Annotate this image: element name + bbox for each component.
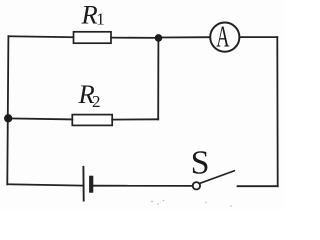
wire: R2 riser corner to R2 box bbox=[112, 118, 158, 120]
switch S lever (open blade) bbox=[200, 171, 235, 184]
ammeter U1 circle bbox=[210, 22, 239, 51]
battery BT1 short thick plate (-) bbox=[89, 178, 93, 191]
svg-text:S: S bbox=[191, 145, 210, 182]
wire right vertical bbox=[276, 37, 278, 186]
node junction dot top (R1/R2 split) bbox=[155, 34, 163, 42]
wire top: left corner to R1 bbox=[8, 35, 73, 38]
wire bottom: left corner to battery bbox=[7, 184, 82, 185]
wire: left node to R2 bbox=[8, 118, 72, 119]
switch S pivot circle bbox=[193, 182, 200, 189]
battery BT1 long plate (+) bbox=[82, 167, 84, 201]
wire: R1 to node bbox=[111, 37, 159, 39]
wire: node down to R2 branch bbox=[157, 38, 159, 119]
wire: switch fixed contact to bottom-right corner bbox=[238, 185, 278, 187]
wire left vertical (top-left corner to bottom-left corner) bbox=[7, 36, 8, 184]
svg-text:2: 2 bbox=[92, 92, 101, 111]
wire: node to ammeter bbox=[159, 36, 211, 38]
svg-text:R: R bbox=[81, 0, 98, 29]
resistor R1 bbox=[74, 32, 112, 43]
svg-text:A: A bbox=[216, 21, 229, 54]
wire: ammeter to top-right corner bbox=[240, 36, 278, 38]
svg-text:1: 1 bbox=[96, 9, 105, 28]
resistor R2 bbox=[72, 115, 112, 126]
wire: battery to switch bbox=[93, 185, 193, 187]
node junction dot left (R2 branch) bbox=[4, 114, 12, 122]
